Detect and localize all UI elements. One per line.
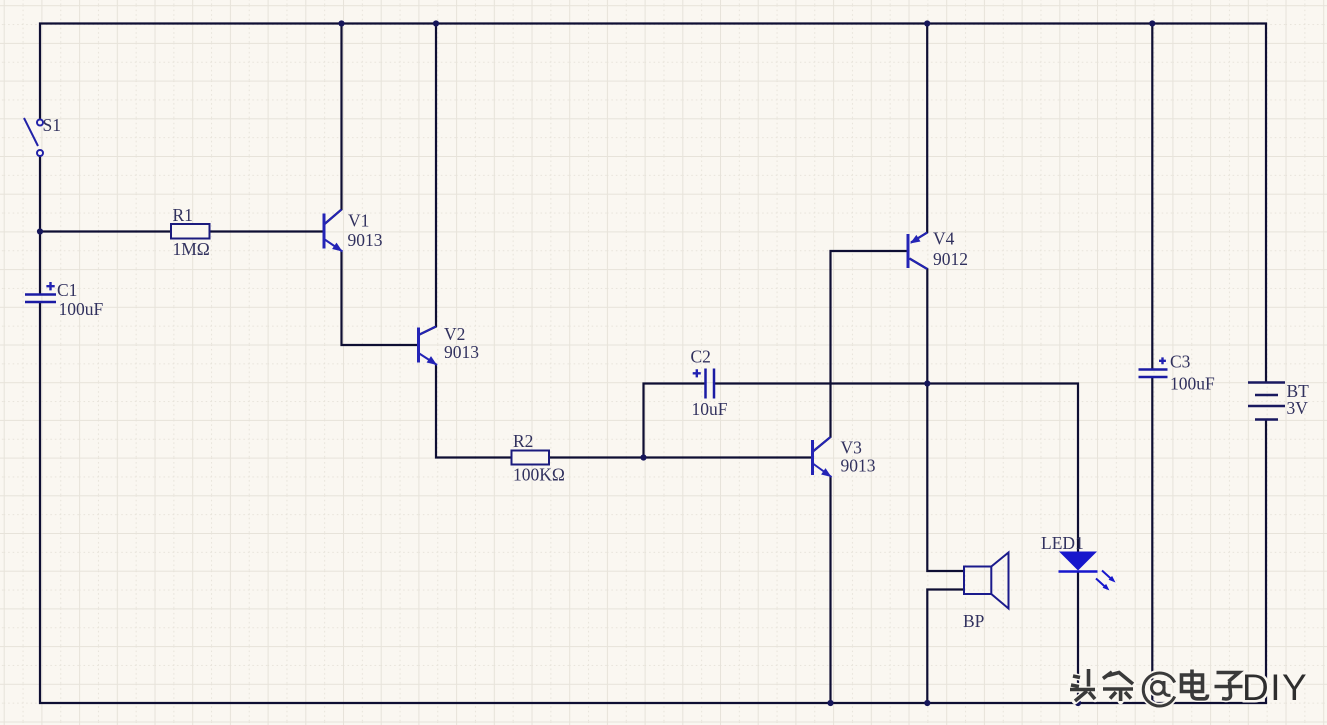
svg-text:S1: S1	[43, 115, 61, 135]
svg-text:C2: C2	[691, 347, 711, 367]
svg-text:9013: 9013	[348, 230, 383, 250]
svg-text:C3: C3	[1170, 352, 1191, 372]
svg-text:3V: 3V	[1287, 398, 1309, 418]
svg-text:100uF: 100uF	[1170, 374, 1215, 394]
svg-text:9013: 9013	[841, 456, 876, 476]
svg-text:9012: 9012	[933, 249, 968, 269]
svg-text:V3: V3	[841, 438, 863, 458]
svg-text:LED1: LED1	[1041, 533, 1084, 553]
svg-text:100KΩ: 100KΩ	[513, 465, 565, 485]
svg-text:C1: C1	[57, 280, 77, 300]
svg-text:V1: V1	[348, 211, 369, 231]
svg-text:100uF: 100uF	[59, 299, 104, 319]
svg-text:DIY: DIY	[1242, 667, 1308, 708]
svg-text:10uF: 10uF	[692, 399, 728, 419]
svg-text:BP: BP	[963, 611, 985, 631]
svg-text:1MΩ: 1MΩ	[173, 239, 210, 259]
svg-text:V2: V2	[444, 324, 465, 344]
svg-text:9013: 9013	[444, 342, 479, 362]
svg-text:R1: R1	[173, 205, 193, 225]
svg-text:R2: R2	[513, 431, 533, 451]
svg-text:V4: V4	[933, 229, 955, 249]
